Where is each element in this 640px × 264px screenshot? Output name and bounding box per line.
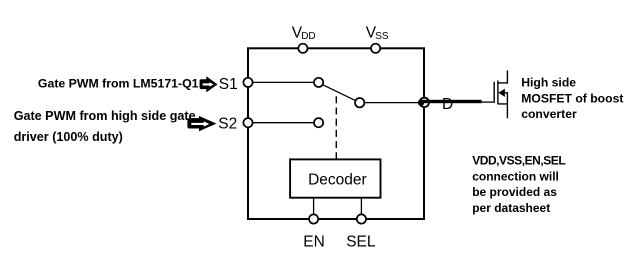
svg-text:converter: converter bbox=[521, 107, 577, 121]
wire decoder to EN pin bbox=[313, 198, 315, 215]
label VDD bbox=[292, 25, 316, 43]
svg-text:D: D bbox=[442, 96, 453, 113]
pin S1 bbox=[243, 78, 252, 87]
thick gate wire D to MOSFET bbox=[423, 100, 482, 103]
label VSS bbox=[366, 25, 389, 43]
IC boundary box U1 bbox=[248, 48, 424, 219]
switch throw contact S1 bbox=[314, 78, 323, 87]
pin VSS bbox=[371, 44, 380, 53]
note VDD VSS EN SEL connection bbox=[472, 154, 565, 215]
thin gate wire to MOSFET gate bbox=[481, 101, 495, 103]
MOSFET Q1 gate bar bbox=[493, 82, 495, 103]
switch pole contact bbox=[355, 98, 364, 107]
dashed control line from switch to decoder bbox=[335, 96, 337, 159]
arrow into S2 bbox=[187, 116, 216, 131]
MOSFET Q1 source lead bbox=[498, 104, 508, 118]
MOSFET Q1 channel bar bbox=[497, 81, 499, 105]
svg-text:S1: S1 bbox=[219, 76, 238, 93]
svg-text:EN: EN bbox=[303, 234, 325, 251]
svg-text:driver (100% duty): driver (100% duty) bbox=[14, 130, 123, 144]
wire S2 to switch throw bbox=[248, 122, 314, 124]
svg-text:Gate PWM from high side gate: Gate PWM from high side gate bbox=[14, 109, 196, 123]
svg-text:connection will: connection will bbox=[472, 169, 559, 183]
switch throw contact S2 bbox=[314, 118, 323, 127]
svg-text:High side: High side bbox=[521, 75, 576, 89]
svg-text:VDD,VSS,EN,SEL: VDD,VSS,EN,SEL bbox=[472, 154, 565, 168]
svg-text:Decoder: Decoder bbox=[308, 171, 367, 188]
svg-text:SEL: SEL bbox=[346, 234, 376, 251]
svg-text:per datasheet: per datasheet bbox=[472, 201, 550, 215]
wire S1 to switch throw bbox=[248, 81, 314, 83]
arrow into S1 bbox=[200, 76, 218, 92]
label High side MOSFET of boost converter bbox=[521, 75, 623, 121]
svg-text:Gate PWM from LM5171-Q1: Gate PWM from LM5171-Q1 bbox=[38, 76, 199, 90]
svg-text:be provided as: be provided as bbox=[472, 185, 557, 199]
decoder block bbox=[290, 159, 380, 197]
pin D on right edge bbox=[420, 98, 429, 107]
pin S2 bbox=[243, 118, 252, 127]
svg-text:SS: SS bbox=[375, 31, 389, 42]
pin VDD bbox=[298, 44, 307, 53]
junction dot at pin D bbox=[418, 100, 424, 106]
switch arm S1 to pole bbox=[322, 85, 356, 101]
svg-text:DD: DD bbox=[301, 31, 315, 42]
wire decoder to SEL pin bbox=[360, 198, 362, 215]
pin SEL bbox=[357, 214, 366, 223]
svg-text:S2: S2 bbox=[218, 116, 237, 133]
MOSFET Q1 body arrow bbox=[498, 89, 505, 97]
MOSFET Q1 body connection bbox=[504, 93, 508, 104]
wire pole to pin D bbox=[364, 102, 421, 104]
MOSFET Q1 drain lead bbox=[498, 70, 508, 83]
svg-text:MOSFET of boost: MOSFET of boost bbox=[521, 91, 623, 105]
pin EN bbox=[309, 214, 318, 223]
